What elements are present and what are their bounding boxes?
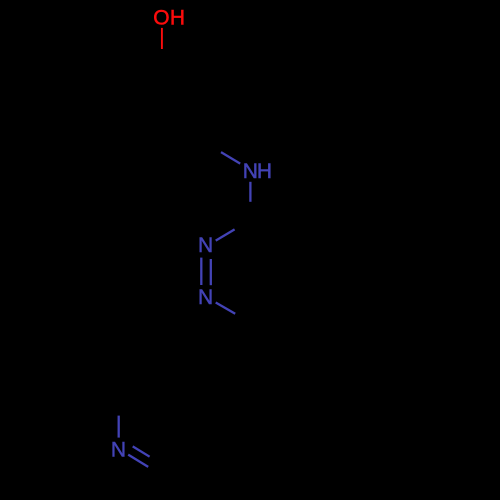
bond O1-C1 (oxygen half, red) xyxy=(161,28,163,49)
svg-text:N: N xyxy=(243,160,258,183)
svg-text:N: N xyxy=(111,439,126,462)
svg-text:O: O xyxy=(153,7,169,30)
bond N4-C7(pyridazine C6) (nitrogen half, blue) xyxy=(216,303,236,314)
bond C3(phenol)-N2(amine) (nitrogen half, blue) xyxy=(221,152,240,164)
svg-text:N: N xyxy=(198,234,213,257)
bond N3(pyridazine)-C4 (nitrogen half, blue) xyxy=(216,229,235,240)
double bond N3=N4 line 1 (left) xyxy=(200,258,202,285)
double bond N5=C13 main line (nitrogen half, blue) xyxy=(128,455,148,467)
bond C12(pyridine C6')-N5 (nitrogen half, blue) xyxy=(118,416,120,438)
svg-text:H: H xyxy=(257,160,272,183)
svg-text:H: H xyxy=(170,7,185,30)
bond N2(amine)-C4(pyridazine C3) (nitrogen half, blue) xyxy=(249,182,251,202)
atom O1 hydroxyl label OH xyxy=(153,7,185,30)
double bond N3=N4 line 2 (right) xyxy=(210,259,212,285)
svg-text:N: N xyxy=(198,286,213,309)
atom N2 amine label NH xyxy=(243,160,272,183)
double bond N5=C13 inner line (nitrogen half, blue) xyxy=(133,446,150,456)
